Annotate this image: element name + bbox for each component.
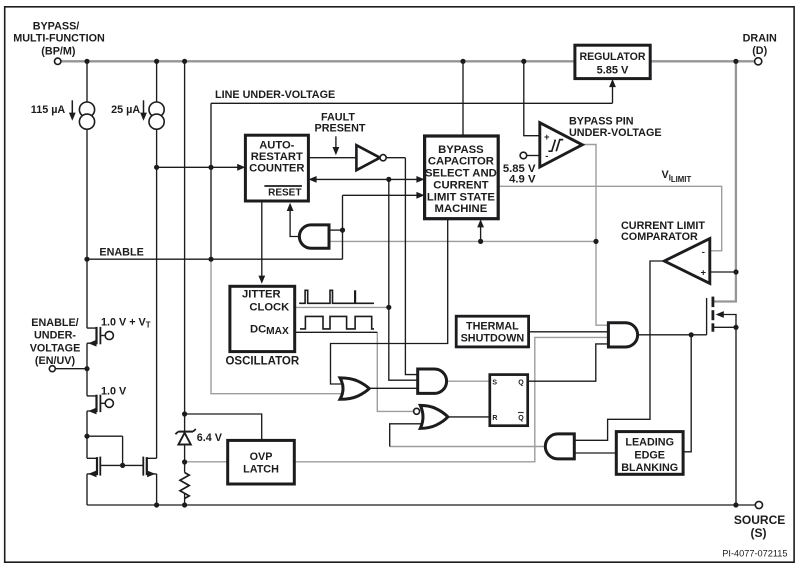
svg-text:DCMAX: DCMAX: [250, 323, 289, 337]
svg-text:4.9 V: 4.9 V: [509, 173, 536, 185]
svg-text:UNDER-: UNDER-: [34, 330, 76, 342]
svg-text:25 µA: 25 µA: [111, 104, 140, 116]
svg-text:-: -: [545, 151, 548, 162]
svg-text:COMPARATOR: COMPARATOR: [621, 231, 698, 243]
svg-text:(S): (S): [751, 526, 767, 540]
svg-text:-: -: [702, 247, 705, 258]
svg-text:1.0 V + VT: 1.0 V + VT: [101, 316, 151, 329]
svg-text:CAPACITOR: CAPACITOR: [428, 156, 494, 168]
svg-text:OVP: OVP: [250, 451, 273, 463]
svg-text:MULTI-FUNCTION: MULTI-FUNCTION: [13, 33, 105, 45]
svg-text:RESTART: RESTART: [251, 151, 303, 163]
svg-text:+: +: [701, 268, 707, 279]
svg-text:FAULT: FAULT: [321, 111, 355, 123]
svg-text:PRESENT: PRESENT: [315, 123, 366, 135]
svg-text:+: +: [544, 132, 550, 143]
svg-text:(EN/UV): (EN/UV): [35, 355, 76, 367]
svg-text:BLANKING: BLANKING: [621, 462, 678, 474]
svg-text:6.4 V: 6.4 V: [197, 432, 223, 444]
svg-text:LEADING: LEADING: [625, 437, 674, 449]
svg-text:LATCH: LATCH: [243, 463, 279, 475]
svg-text:UNDER-VOLTAGE: UNDER-VOLTAGE: [569, 127, 662, 139]
svg-text:THERMAL: THERMAL: [466, 321, 519, 333]
svg-text:(D): (D): [752, 45, 767, 57]
svg-text:REGULATOR: REGULATOR: [579, 51, 645, 63]
svg-text:(BP/M): (BP/M): [41, 46, 76, 58]
svg-text:LINE UNDER-VOLTAGE: LINE UNDER-VOLTAGE: [215, 89, 335, 101]
svg-text:ENABLE/: ENABLE/: [31, 317, 78, 329]
svg-text:CLOCK: CLOCK: [249, 301, 289, 313]
svg-text:S: S: [492, 379, 497, 386]
svg-text:SELECT AND: SELECT AND: [425, 168, 497, 180]
svg-text:R: R: [492, 415, 497, 422]
svg-text:SOURCE: SOURCE: [734, 513, 785, 527]
svg-text:VOLTAGE: VOLTAGE: [30, 342, 81, 354]
svg-text:BYPASS: BYPASS: [438, 144, 484, 156]
svg-text:ENABLE: ENABLE: [99, 246, 143, 258]
svg-text:MACHINE: MACHINE: [435, 203, 488, 215]
svg-text:5.85 V: 5.85 V: [597, 64, 629, 76]
svg-text:LIMIT STATE: LIMIT STATE: [427, 191, 495, 203]
svg-text:115 µA: 115 µA: [31, 104, 66, 116]
svg-text:Q: Q: [518, 415, 524, 422]
svg-text:AUTO-: AUTO-: [259, 139, 294, 151]
svg-text:CURRENT: CURRENT: [433, 179, 488, 191]
svg-text:PI-4077-072115: PI-4077-072115: [722, 548, 787, 558]
svg-text:OSCILLATOR: OSCILLATOR: [225, 355, 299, 367]
svg-text:JITTER: JITTER: [242, 289, 281, 301]
svg-text:DRAIN: DRAIN: [743, 32, 777, 44]
svg-text:CURRENT LIMIT: CURRENT LIMIT: [621, 220, 705, 232]
svg-text:RESET: RESET: [268, 188, 301, 199]
svg-text:EDGE: EDGE: [634, 449, 665, 461]
svg-text:SHUTDOWN: SHUTDOWN: [461, 333, 525, 345]
svg-text:COUNTER: COUNTER: [249, 162, 304, 174]
svg-text:Q: Q: [518, 379, 524, 386]
svg-text:BYPASS/: BYPASS/: [33, 20, 80, 32]
svg-text:1.0 V: 1.0 V: [101, 385, 127, 397]
